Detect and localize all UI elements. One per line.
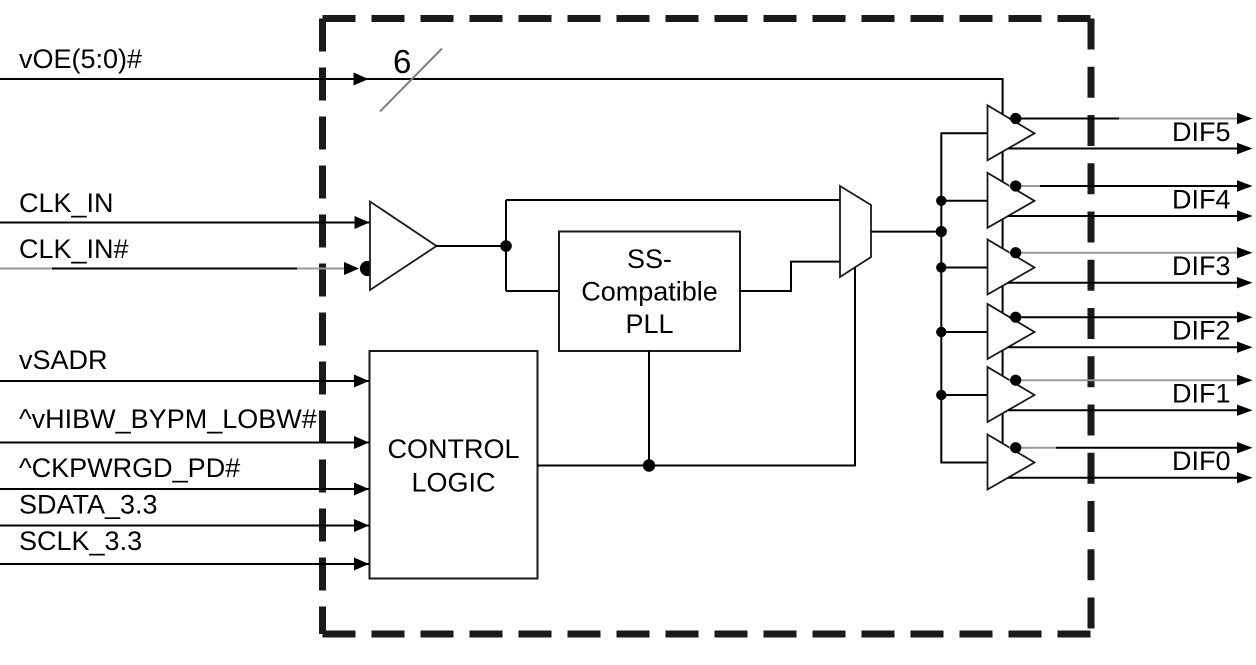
wire vSADR input line — [0, 380, 369, 382]
wire SCLK_3.3 input line — [0, 563, 369, 565]
arrowhead vOE into chip — [354, 73, 369, 86]
wire CLK_IN input line — [0, 222, 370, 224]
arrowhead SDATA_3.3 — [354, 519, 369, 532]
svg-text:vSADR: vSADR — [19, 345, 108, 375]
svg-text:DIF4: DIF4 — [1172, 185, 1231, 215]
wire buffer output to node A — [437, 245, 507, 247]
arrowhead SCLK_3.3 — [354, 558, 369, 571]
wire DIF0 complement output — [1008, 477, 1237, 479]
wire DIF5 true output — [1009, 118, 1119, 120]
svg-text:^vHIBW_BYPM_LOBW#: ^vHIBW_BYPM_LOBW# — [19, 404, 317, 434]
wire PLL output to mux second input — [740, 262, 840, 291]
junction dot DIF0 enable/output — [1010, 442, 1021, 453]
svg-text:PLL: PLL — [625, 309, 673, 339]
arrowhead ^vHIBW_BYPM_LOBW# — [354, 436, 369, 449]
wire bus tap to DIF4 buffer — [941, 200, 987, 202]
output buffer DIF3 — [988, 240, 1035, 295]
wire DIF3 true output — [1009, 252, 1237, 254]
mux (bypass/PLL select) — [840, 186, 871, 277]
wire bypass path to mux top input — [506, 199, 840, 201]
svg-text:DIF1: DIF1 — [1172, 379, 1231, 409]
wire DIF3 complement output — [1008, 282, 1237, 284]
arrowhead DIF2 complement output — [1237, 342, 1253, 353]
wire DIF4 true output — [1009, 185, 1040, 187]
arrowhead DIF1 complement output — [1237, 405, 1253, 416]
wire DIF1 true output — [1009, 379, 1237, 381]
junction dot mux output on bus — [936, 226, 947, 237]
svg-text:DIF0: DIF0 — [1172, 446, 1231, 476]
arrowhead CLK_IN — [355, 216, 370, 229]
svg-text:SCLK_3.3: SCLK_3.3 — [19, 526, 142, 556]
wire bus tap to DIF1 buffer — [941, 394, 987, 396]
arrowhead ^CKPWRGD_PD# — [354, 483, 369, 496]
svg-text:DIF2: DIF2 — [1172, 316, 1231, 346]
arrowhead DIF4 complement output — [1237, 210, 1253, 221]
wire into PLL input — [506, 290, 559, 292]
svg-text:SDATA_3.3: SDATA_3.3 — [19, 490, 158, 520]
wire clock distribution bus — [941, 133, 987, 462]
SS-Compatible PLL block — [559, 232, 740, 352]
junction dot DIF5 enable/output — [1010, 113, 1021, 124]
output buffer DIF4 — [988, 173, 1035, 228]
output buffer DIF5 — [988, 105, 1035, 160]
junction dot bus tap DIF3 — [936, 262, 946, 272]
arrowhead DIF3 complement output — [1237, 277, 1253, 288]
output buffer DIF1 — [988, 367, 1035, 422]
svg-text:^CKPWRGD_PD#: ^CKPWRGD_PD# — [19, 453, 240, 483]
arrowhead DIF2 true output — [1237, 312, 1253, 323]
arrowhead DIF3 true output — [1237, 247, 1253, 258]
wire DIF4 complement output — [1008, 215, 1237, 217]
junction dot DIF2 enable/output — [1010, 312, 1021, 323]
wire DIF1 complement output — [1008, 409, 1237, 411]
junction dot CLK_IN# at buffer input — [360, 261, 375, 276]
wire DIF2 true output — [1009, 316, 1237, 318]
arrowhead DIF5 complement output — [1237, 143, 1253, 154]
svg-text:SS-: SS- — [627, 244, 672, 274]
svg-text:CLK_IN: CLK_IN — [19, 188, 114, 218]
arrowhead DIF4 true output — [1237, 180, 1253, 191]
svg-text:vOE(5:0)#: vOE(5:0)# — [19, 44, 142, 74]
svg-text:6: 6 — [393, 43, 411, 80]
junction dot node A — [500, 240, 512, 252]
junction dot DIF4 enable/output — [1010, 180, 1021, 191]
arrowhead DIF1 true output — [1237, 375, 1253, 386]
svg-text:DIF5: DIF5 — [1172, 117, 1231, 147]
wire bus tap to DIF2 buffer — [941, 331, 987, 333]
arrowhead DIF5 true output — [1237, 113, 1253, 124]
svg-text:LOGIC: LOGIC — [411, 468, 495, 498]
output buffer DIF2 — [988, 304, 1035, 359]
CONTROL LOGIC block — [370, 351, 538, 579]
svg-text:CLK_IN#: CLK_IN# — [19, 234, 129, 264]
wire mux output to distribution bus — [871, 231, 941, 233]
wire vOE(5:0)# input line with enable vertical down to output buffers — [0, 79, 1003, 446]
junction dot bus tap DIF4 — [936, 196, 946, 206]
junction dot bus tap DIF1 — [936, 390, 946, 400]
input buffer U1 (CLK receiver) — [370, 202, 437, 291]
arrowhead vSADR — [354, 375, 369, 388]
wire ^vHIBW_BYPM_LOBW# input line — [0, 442, 369, 444]
wire bus tap to DIF3 buffer — [941, 267, 987, 269]
wire CLK_IN# input line — [0, 268, 52, 270]
wire DIF0 true output — [1009, 447, 1056, 449]
arrowhead DIF0 true output — [1237, 442, 1253, 453]
wire ^CKPWRGD_PD# input line — [0, 488, 369, 490]
junction dot bus tap DIF2 — [936, 327, 946, 337]
wire PLL control connection — [648, 351, 650, 466]
wire SDATA_3.3 input line — [0, 525, 369, 527]
wire control logic output to mux select — [538, 268, 856, 466]
svg-text:DIF3: DIF3 — [1172, 251, 1231, 281]
bus slash mark — [380, 49, 442, 112]
junction dot PLL/control line — [643, 459, 655, 471]
arrowhead DIF0 complement output — [1237, 472, 1253, 483]
wire node A vertical (bypass/PLL split) — [505, 200, 507, 291]
wire DIF5 complement output — [1008, 148, 1237, 150]
junction dot DIF3 enable/output — [1010, 247, 1021, 258]
chip boundary (dashed IC outline) — [323, 19, 1092, 635]
svg-text:Compatible: Compatible — [581, 276, 718, 306]
svg-text:CONTROL: CONTROL — [387, 434, 519, 464]
wire DIF2 complement output — [1008, 346, 1237, 348]
junction dot DIF1 enable/output — [1010, 375, 1021, 386]
arrowhead CLK_IN# — [344, 262, 359, 275]
output buffer DIF0 — [988, 435, 1035, 490]
